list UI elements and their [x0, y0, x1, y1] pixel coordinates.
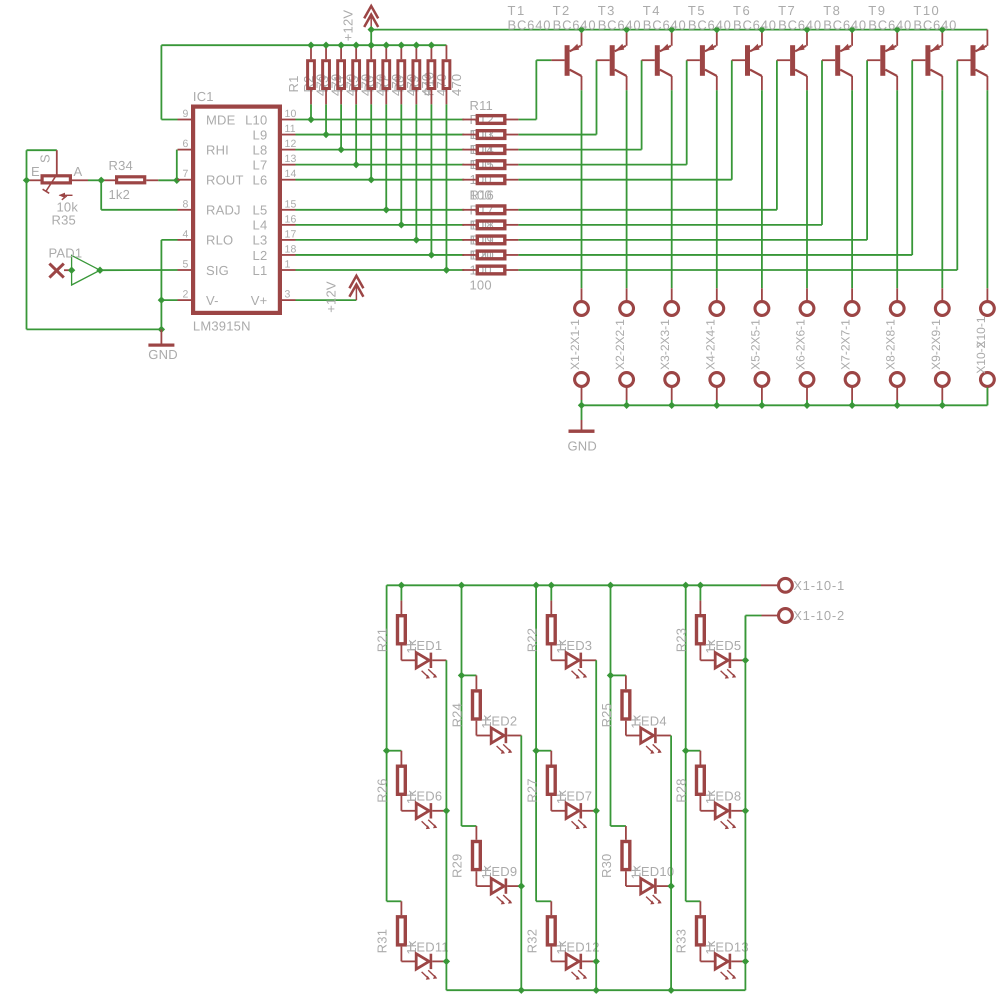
- pin 5 SIG: [178, 259, 230, 278]
- svg-text:X9-2X9-1: X9-2X9-1: [929, 319, 943, 370]
- wire L9 row: [296, 134, 465, 136]
- svg-text:R22: R22: [525, 628, 540, 652]
- transistor T4 BC640: [643, 3, 717, 91]
- wire cathode rail col A: [445, 660, 447, 990]
- node bottom bus junction: [593, 987, 600, 994]
- node X8-2 to bus: [894, 402, 901, 409]
- resistor R19 100: [462, 251, 518, 259]
- label R3: [316, 75, 331, 92]
- label R15: [470, 157, 494, 172]
- supply +12V top: [341, 6, 379, 41]
- label R5: [346, 75, 361, 92]
- wire: [415, 104, 417, 240]
- svg-text:T4: T4: [643, 3, 661, 18]
- svg-text:BC640: BC640: [733, 18, 777, 33]
- wire L10 row: [296, 119, 465, 121]
- node R3 top: [337, 42, 344, 49]
- wire T2 collector down: [626, 90, 628, 288]
- svg-text:10: 10: [285, 108, 297, 120]
- svg-text:1k2: 1k2: [109, 187, 131, 202]
- node T3 emitter: [668, 26, 675, 33]
- svg-text:BC640: BC640: [823, 18, 867, 33]
- node LED13 cathode: [742, 958, 749, 965]
- svg-text:L4: L4: [253, 218, 268, 233]
- svg-text:LED6: LED6: [409, 789, 442, 804]
- svg-text:2: 2: [182, 289, 188, 301]
- node LED5 cathode: [742, 657, 749, 664]
- svg-text:LED2: LED2: [484, 713, 517, 728]
- svg-text:X8-2X8-1: X8-2X8-1: [884, 319, 898, 370]
- label 100: [470, 157, 492, 172]
- svg-text:RADJ: RADJ: [206, 203, 241, 218]
- wire T1 collector down: [581, 90, 583, 288]
- pin 14 L6: [253, 168, 297, 187]
- wire rail D: [610, 585, 612, 826]
- wire resistor top rail: [161, 44, 446, 46]
- connector X1-10-1: [761, 578, 845, 593]
- node R6 top: [383, 42, 390, 49]
- svg-text:15: 15: [285, 198, 297, 210]
- LED LED2: [476, 713, 521, 753]
- label 470: [374, 74, 389, 96]
- node bus rail tap: [607, 582, 614, 589]
- resistor R23 1k: [674, 601, 718, 661]
- wire cathode rail col C: [595, 660, 597, 990]
- svg-text:LED12: LED12: [559, 939, 600, 954]
- wire: [400, 104, 402, 225]
- wire: [611, 825, 626, 827]
- svg-text:BC640: BC640: [508, 18, 552, 33]
- LED LED4: [626, 713, 671, 753]
- label R4: [331, 75, 346, 92]
- label 470: [419, 74, 434, 96]
- svg-text:RHI: RHI: [206, 142, 229, 157]
- transistor T8 BC640: [823, 3, 897, 91]
- svg-text:LM3915N: LM3915N: [193, 319, 251, 334]
- connector X5-2: [755, 373, 769, 406]
- pin 17 L3: [253, 228, 297, 247]
- node R1 top: [307, 42, 314, 49]
- node T4 emitter: [713, 26, 720, 33]
- wire: [325, 104, 327, 134]
- connector X7-2: [845, 373, 859, 406]
- label R9: [406, 75, 421, 92]
- svg-text:X10-1: X10-1: [974, 316, 988, 348]
- node X6-2 to bus: [803, 402, 810, 409]
- IC U1 IC1 LM3915N body: [193, 89, 280, 334]
- supply +12V at pin 3: [324, 276, 364, 313]
- svg-text:T2: T2: [553, 3, 571, 18]
- svg-text:LED5: LED5: [708, 638, 741, 653]
- svg-text:R31: R31: [375, 929, 390, 953]
- pin 15 L5: [253, 198, 297, 217]
- svg-text:GND: GND: [148, 347, 178, 362]
- svg-text:LED9: LED9: [484, 864, 517, 879]
- svg-text:X6-2X6-1: X6-2X6-1: [794, 319, 808, 370]
- wire T3 collector down: [671, 90, 673, 288]
- label R16: [470, 187, 494, 202]
- LED LED9: [476, 864, 521, 904]
- svg-text:R29: R29: [450, 854, 465, 878]
- transistor T7 BC640: [778, 3, 852, 91]
- node R9 to L2: [428, 251, 435, 258]
- wire: [686, 900, 701, 902]
- wire A to R34: [88, 179, 101, 181]
- svg-text:R32: R32: [525, 929, 540, 953]
- wire: [462, 674, 477, 676]
- wire rail E: [685, 585, 687, 901]
- wire: [340, 104, 342, 149]
- label 100: [470, 263, 492, 278]
- node R28 feed: [682, 747, 689, 754]
- label R7: [376, 75, 391, 92]
- svg-text:X4-2X4-1: X4-2X4-1: [703, 319, 717, 370]
- wire cathode rail col B: [520, 736, 522, 991]
- svg-text:X5-2X5-1: X5-2X5-1: [748, 319, 762, 370]
- svg-text:8: 8: [182, 198, 188, 210]
- connector X1-1: [575, 288, 589, 315]
- node R4 top: [352, 42, 359, 49]
- wire rail C: [535, 585, 537, 901]
- node R7 top: [398, 42, 405, 49]
- resistor R25 1k: [599, 675, 643, 735]
- wire: [536, 750, 551, 752]
- node SIG junction: [96, 267, 103, 274]
- wire R18 to T8 base: [518, 60, 867, 240]
- resistor R24 1k: [450, 675, 494, 735]
- label R13: [470, 127, 494, 142]
- resistor R6 470: [383, 45, 390, 104]
- svg-text:17: 17: [285, 228, 297, 240]
- resistor R13 100: [462, 146, 518, 154]
- svg-text:L1: L1: [253, 263, 268, 278]
- label 100: [470, 217, 492, 232]
- node R3 to L8: [337, 146, 344, 153]
- svg-text:6: 6: [182, 138, 188, 150]
- svg-text:LED8: LED8: [708, 789, 741, 804]
- svg-text:3: 3: [285, 289, 291, 301]
- wire R14 to T4 base: [518, 60, 686, 164]
- node X9-2 to bus: [939, 402, 946, 409]
- svg-text:RLO: RLO: [206, 233, 233, 248]
- wire T5 collector down: [761, 90, 763, 288]
- wire L3 row: [296, 239, 465, 241]
- node R27 feed: [532, 747, 539, 754]
- node bus rail tap: [458, 582, 465, 589]
- svg-text:LED1: LED1: [409, 638, 442, 653]
- wire R17 to T7 base: [518, 60, 822, 225]
- connector X2-2: [620, 373, 634, 406]
- resistor R28 1k: [674, 751, 718, 811]
- LED LED13: [700, 939, 748, 979]
- svg-text:X1-10-2: X1-10-2: [793, 608, 845, 623]
- svg-text:T6: T6: [733, 3, 751, 18]
- connector X10-2: [981, 373, 995, 406]
- node T5 emitter: [758, 26, 765, 33]
- resistor R21 1k: [375, 601, 419, 661]
- resistor R10 470: [443, 45, 450, 104]
- svg-text:S: S: [38, 154, 53, 163]
- node X7-2 to bus: [848, 402, 855, 409]
- wire: [550, 585, 552, 600]
- svg-text:18: 18: [285, 243, 297, 255]
- resistor R17 100: [462, 221, 518, 229]
- label 470: [314, 74, 329, 96]
- wire RHI tie: [176, 150, 178, 181]
- svg-text:T7: T7: [778, 3, 796, 18]
- svg-text:T9: T9: [868, 3, 886, 18]
- svg-text:L9: L9: [253, 127, 268, 142]
- label R20: [470, 247, 494, 262]
- svg-text:R27: R27: [525, 778, 540, 802]
- wire: [400, 585, 402, 600]
- wire R16 to T6 base: [518, 60, 777, 210]
- node LED8 cathode: [742, 807, 749, 814]
- node bottom bus junction: [667, 987, 674, 994]
- svg-text:BC640: BC640: [688, 18, 732, 33]
- pin 13 L7: [253, 153, 297, 172]
- node R9 top: [428, 42, 435, 49]
- svg-text:4: 4: [182, 228, 188, 240]
- resistor R15 100: [462, 176, 518, 184]
- label 100: [470, 127, 492, 142]
- node R26 feed: [383, 747, 390, 754]
- LED LED6: [401, 789, 446, 829]
- wire: [387, 900, 402, 902]
- pin 3 V+: [251, 289, 296, 308]
- svg-text:R26: R26: [375, 778, 390, 802]
- wire T6 collector down: [806, 90, 808, 288]
- svg-text:1: 1: [285, 259, 291, 271]
- wire +12V rail to resistor rail: [370, 30, 372, 46]
- resistor R26 1k: [375, 751, 419, 811]
- node ROUT-RHI junction: [173, 177, 180, 184]
- svg-text:X3-2X3-1: X3-2X3-1: [658, 319, 672, 370]
- connector X6-2: [800, 373, 814, 406]
- wire emitter +12V rail: [371, 29, 987, 31]
- svg-text:R34: R34: [109, 158, 133, 173]
- svg-text:L10: L10: [245, 112, 267, 127]
- node T6 emitter: [803, 26, 810, 33]
- resistor R14 100: [462, 161, 518, 169]
- node LED9 cathode: [518, 882, 525, 889]
- ground GND2: [568, 405, 598, 453]
- svg-text:X1-2X1-1: X1-2X1-1: [568, 319, 582, 370]
- node R6 to L5: [383, 206, 390, 213]
- transistor T10 BC640: [913, 3, 987, 91]
- label R6: [361, 75, 376, 92]
- label X10-1: [974, 316, 988, 348]
- wire T8 collector down: [896, 90, 898, 288]
- wire: [430, 104, 432, 255]
- wire SIG net: [100, 269, 178, 271]
- svg-text:V-: V-: [206, 293, 219, 308]
- node LED7 cathode: [593, 807, 600, 814]
- label X6-2 X6-1: [794, 319, 808, 370]
- label R12: [470, 112, 494, 127]
- node GND junction: [158, 326, 165, 333]
- svg-text:9: 9: [182, 108, 188, 120]
- pin 16 L4: [253, 213, 297, 232]
- pin 11 L9: [253, 123, 296, 142]
- wire L5 row: [296, 209, 465, 211]
- pin 2 V-: [178, 289, 219, 308]
- label R1: [286, 75, 301, 92]
- svg-text:LED11: LED11: [409, 939, 449, 954]
- LED LED3: [551, 638, 596, 678]
- ground GND1: [148, 329, 178, 362]
- wire MDE to +12V rail: [161, 45, 177, 119]
- wire T10 collector down: [986, 90, 988, 288]
- transistor T5 BC640: [688, 3, 762, 91]
- node R21 feed: [398, 582, 405, 589]
- wire LED bottom bus: [446, 989, 745, 991]
- resistor R22 1k: [525, 601, 569, 661]
- wire R11 to T1 base: [518, 60, 551, 119]
- svg-text:IC1: IC1: [193, 89, 214, 104]
- label 470: [404, 74, 419, 96]
- svg-text:T3: T3: [598, 3, 616, 18]
- node LED6 cathode: [443, 807, 450, 814]
- label X7-2 X7-1: [839, 319, 853, 370]
- wire RLO to V- net: [161, 240, 177, 330]
- transistor T3 BC640: [598, 3, 672, 91]
- svg-text:L2: L2: [253, 248, 268, 263]
- node R8 top: [413, 42, 420, 49]
- svg-text:L6: L6: [253, 173, 268, 188]
- label R2: [301, 75, 316, 92]
- svg-text:12: 12: [285, 138, 297, 150]
- connector X9-2: [935, 373, 949, 406]
- pin 7 ROUT: [178, 168, 244, 187]
- resistor R8 470: [413, 45, 420, 104]
- svg-text:BC640: BC640: [598, 18, 642, 33]
- resistor R30 1k: [599, 826, 643, 886]
- svg-text:BC640: BC640: [553, 18, 597, 33]
- wire RADJ net: [101, 180, 177, 210]
- resistor R20 100: [462, 266, 518, 274]
- label 470: [359, 74, 374, 96]
- resistor R32 1k: [525, 901, 569, 961]
- connector X2-1: [620, 288, 634, 315]
- wire: [462, 825, 477, 827]
- svg-text:L5: L5: [253, 203, 268, 218]
- wire V+ to supply: [296, 299, 357, 301]
- label R10: [421, 72, 436, 96]
- node T7 emitter: [848, 26, 855, 33]
- node R2 top: [322, 42, 329, 49]
- connector X4-2: [710, 373, 724, 406]
- label R8: [391, 75, 406, 92]
- wire R15 to T5 base: [518, 60, 731, 180]
- wire R13 to T3 base: [518, 60, 641, 149]
- wire: [370, 104, 372, 179]
- resistor R7 470: [398, 45, 405, 104]
- wire T9 collector down: [941, 90, 943, 288]
- svg-text:L3: L3: [253, 233, 268, 248]
- wire LED top bus: [387, 584, 761, 586]
- svg-text:7: 7: [182, 168, 188, 180]
- connector X4-1: [710, 288, 724, 315]
- wire cathode rail col D: [670, 736, 672, 991]
- label 100: [470, 142, 492, 157]
- svg-text:14: 14: [285, 168, 297, 180]
- resistor R31 1k: [375, 901, 419, 961]
- resistor R29 1k: [450, 826, 494, 886]
- svg-text:T1: T1: [508, 3, 526, 18]
- node LED11 cathode: [443, 958, 450, 965]
- svg-text:T5: T5: [688, 3, 706, 18]
- wire R19 to T9 base: [518, 60, 912, 255]
- resistor R11 100: [462, 116, 518, 124]
- connector X1-10-2: [762, 608, 846, 623]
- pin 6 RHI: [178, 138, 230, 157]
- wire R12 to T2 base: [518, 60, 596, 134]
- node X3-2 to bus: [668, 402, 675, 409]
- node X4-2 to bus: [713, 402, 720, 409]
- wire S-wiper to E loop: [27, 150, 57, 329]
- transistor T9 BC640: [868, 3, 942, 91]
- wire: [611, 674, 626, 676]
- transistor T1 BC640: [508, 3, 582, 91]
- wire L6 row: [296, 179, 465, 181]
- svg-text:L7: L7: [253, 157, 268, 172]
- svg-text:LED7: LED7: [559, 789, 592, 804]
- svg-text:LED4: LED4: [634, 713, 667, 728]
- label X5-2 X5-1: [748, 319, 762, 370]
- label 100: [470, 172, 492, 187]
- svg-text:BC640: BC640: [643, 18, 687, 33]
- connector X8-1: [890, 288, 904, 315]
- node T8 emitter: [894, 26, 901, 33]
- label 470: [449, 74, 464, 96]
- node X1-2 to bus: [578, 402, 585, 409]
- pin 12 L8: [253, 138, 297, 157]
- resistor R27 1k: [525, 751, 569, 811]
- svg-text:R11: R11: [470, 98, 493, 113]
- svg-text:13: 13: [285, 153, 297, 165]
- LED LED1: [401, 638, 446, 678]
- label X2-2 X2-1: [613, 319, 627, 370]
- connector X6-1: [800, 288, 814, 315]
- svg-text:T10: T10: [913, 3, 940, 18]
- LED LED5: [700, 638, 745, 678]
- svg-text:+12V: +12V: [324, 281, 339, 313]
- wire L8 row: [296, 149, 465, 151]
- resistor R4 470: [353, 45, 360, 104]
- node bus rail tap: [532, 582, 539, 589]
- wire connector GND bus: [582, 387, 988, 405]
- node bottom bus junction: [518, 987, 525, 994]
- svg-text:BC640: BC640: [868, 18, 912, 33]
- svg-text:R21: R21: [375, 628, 390, 652]
- label 100: [470, 278, 492, 293]
- node R7 to L4: [398, 221, 405, 228]
- connector X3-2: [665, 373, 679, 406]
- node LED10 cathode: [667, 882, 674, 889]
- label X3-2 X3-1: [658, 319, 672, 370]
- transistor T2 BC640: [553, 3, 627, 91]
- svg-text:R25: R25: [599, 703, 614, 727]
- svg-text:BC640: BC640: [913, 18, 957, 33]
- wire: [355, 104, 357, 164]
- resistor R9 470: [428, 45, 435, 104]
- node R4 to L7: [352, 161, 359, 168]
- connector X9-1: [935, 288, 949, 315]
- svg-text:ROUT: ROUT: [206, 173, 244, 188]
- node bus rail tap: [682, 582, 689, 589]
- svg-text:R35: R35: [52, 213, 76, 228]
